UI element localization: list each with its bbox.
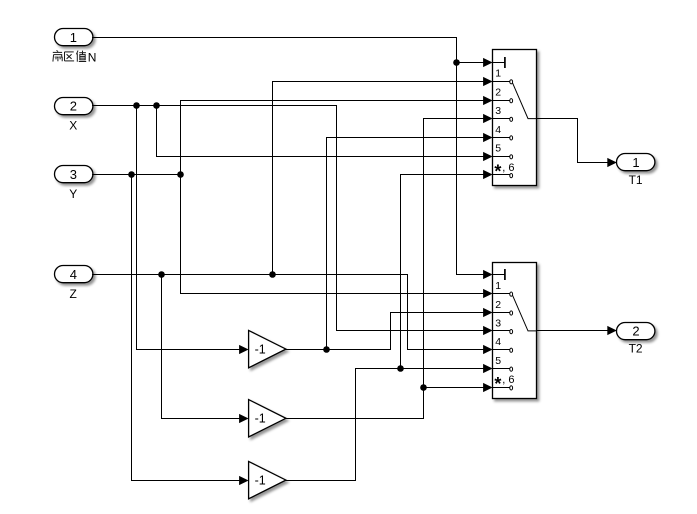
wire: -X to U1 input 4 — [326, 137, 484, 139]
junction: -Y to U1 port6 — [397, 365, 404, 372]
svg-text:1: 1 — [495, 280, 501, 292]
wire: -Z to U2 input 6 — [423, 387, 484, 389]
label: sector value N (CJK) — [53, 50, 86, 61]
svg-text:2: 2 — [632, 324, 639, 339]
inport 4 (Z) — [55, 266, 93, 301]
outport 1 (T1) — [617, 154, 655, 188]
wire: U2 output to T2 — [536, 330, 608, 332]
wire: G2 output — [285, 418, 424, 420]
wire: G1 riser to U1 row4 — [326, 137, 328, 350]
svg-text:1: 1 — [632, 155, 639, 170]
svg-text:-1: -1 — [255, 343, 266, 357]
svg-text:5: 5 — [495, 355, 501, 367]
inport 3 (Y) — [55, 166, 93, 201]
svg-text:T1: T1 — [629, 173, 643, 187]
wire: X drop to U2 port3 row — [336, 105, 338, 331]
junction: Y to gain G3 — [128, 171, 135, 178]
wire: Z to U2 input 4 — [407, 349, 484, 351]
wire: G1 output — [285, 349, 391, 351]
wire: -Y riser to U1 row6 — [400, 174, 402, 369]
wire: Z riser to U1 row1 — [272, 81, 274, 275]
multiport switch U2 — [493, 263, 537, 399]
svg-text:1: 1 — [495, 68, 501, 80]
junction: Z to gain G2 — [158, 271, 165, 278]
wire: U1 output to T1 — [536, 118, 578, 120]
gain G3 (-1) — [249, 461, 286, 498]
wire: X drop to U1 port5 row — [156, 105, 158, 157]
svg-text:X: X — [69, 118, 77, 132]
wire: Y to U1 input 2 — [180, 100, 484, 102]
svg-text:4: 4 — [495, 336, 501, 348]
svg-text:1: 1 — [70, 30, 77, 45]
gain G2 (-1) — [249, 400, 286, 437]
wire: Y from inport3 — [92, 174, 181, 176]
svg-text:-1: -1 — [255, 474, 266, 488]
gain G1 (-1) — [249, 330, 286, 367]
wire: X to U1 input 5 — [156, 156, 484, 158]
svg-text:N: N — [88, 51, 97, 65]
svg-text:3: 3 — [495, 318, 501, 330]
wire: X from inport2 — [92, 105, 337, 107]
svg-text:*: * — [494, 374, 501, 394]
junction: X to gain G1 — [133, 102, 140, 109]
wire: G1 riser to U2 row2 — [390, 312, 392, 350]
svg-text:2: 2 — [495, 299, 501, 311]
junction: Y risers — [177, 171, 184, 178]
svg-text:T2: T2 — [629, 342, 643, 356]
svg-text:2: 2 — [495, 87, 501, 99]
wire: Y into G3 input — [131, 480, 240, 482]
svg-text:3: 3 — [495, 105, 501, 117]
svg-text:5: 5 — [495, 143, 501, 155]
wire: -Y to U2 input 5 — [355, 368, 484, 370]
svg-text:, 6: , 6 — [502, 162, 514, 174]
svg-text:-1: -1 — [255, 412, 266, 426]
wire: X drop to G1 — [136, 105, 138, 350]
svg-text:, 6: , 6 — [502, 374, 514, 386]
wire: G2 riser to U1 row3 — [423, 118, 425, 419]
junction: N to U1 control — [453, 59, 460, 66]
outport 2 (T2) — [617, 323, 655, 356]
wire: G3 riser to U2 row5 — [355, 368, 357, 481]
wire: N to U1 control input — [456, 62, 484, 64]
wire: -X to U2 input 2 — [390, 312, 484, 314]
wire: Z drop to U2 row4 — [407, 274, 409, 350]
wire: N from inport1 to riser — [92, 37, 457, 39]
inport 2 (X) — [55, 98, 93, 133]
junction: -Z to U2 port6 — [420, 384, 427, 391]
junction: G1 out to U1 port4 — [323, 346, 330, 353]
wire: Y to U2 input 1 — [180, 293, 484, 295]
wire: N vertical riser — [456, 37, 458, 275]
wire: Z drop to G2 — [161, 274, 163, 419]
wire: -Z to U1 input 3 — [423, 118, 484, 120]
wire: Z from inport4 — [92, 274, 408, 276]
wire: N to U2 control input — [456, 274, 484, 276]
junction: Z to U1 port1 — [269, 271, 276, 278]
wire: -Y to U1 input 6 — [400, 174, 484, 176]
multiport switch U1 — [493, 50, 537, 186]
svg-text:Y: Y — [69, 187, 77, 201]
wire: Z to U1 input 1 — [272, 81, 484, 83]
wire: Y riser up and down — [180, 100, 182, 294]
junction: X to U1 port 5 — [153, 102, 160, 109]
svg-text:*: * — [494, 162, 501, 182]
svg-text:3: 3 — [70, 167, 77, 182]
wire: Y drop to G3 — [131, 174, 133, 481]
wire: G3 output — [285, 480, 356, 482]
inport 1 (sector value N) — [55, 29, 93, 46]
wire: X into G1 input — [136, 349, 240, 351]
svg-text:Z: Z — [70, 287, 77, 301]
wire: Z into G2 input — [161, 418, 240, 420]
wire: X to U2 input 3 — [336, 330, 484, 332]
svg-text:2: 2 — [70, 99, 77, 114]
svg-text:4: 4 — [495, 124, 501, 136]
svg-text:4: 4 — [70, 267, 77, 282]
